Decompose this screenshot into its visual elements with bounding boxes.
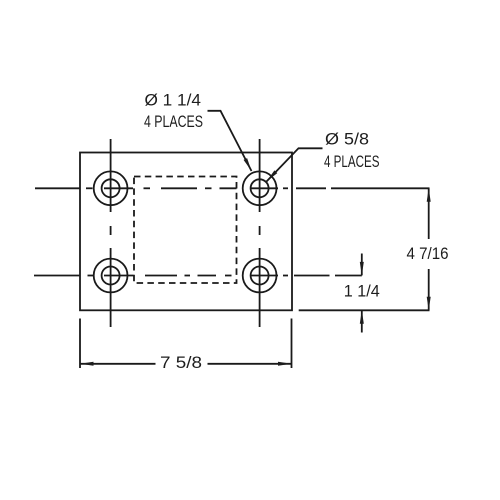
svg-text:Ø 1 1/4: Ø 1 1/4 — [145, 91, 202, 110]
arrowhead 7 5/8 left — [80, 362, 94, 366]
extension line bottom for 4 7/16 — [299, 309, 430, 311]
arrowhead 7 5/8 right — [278, 362, 292, 366]
hole bottom-right outer circle — [243, 259, 277, 293]
arrowhead leader 1 1/4 — [244, 158, 252, 171]
vertical centerline right column — [259, 139, 261, 327]
dimension line 7 5/8 right segment — [208, 363, 292, 365]
extension line top for 4 7/16 — [331, 187, 430, 189]
hole top-left inner circle — [102, 179, 120, 197]
leader line for hole diameter 5/8 — [267, 148, 323, 181]
arrowhead 4 7/16 bottom — [427, 297, 431, 311]
hole top-right outer circle — [243, 171, 277, 205]
svg-text:7 5/8: 7 5/8 — [160, 353, 202, 372]
hole bottom-right inner circle — [251, 267, 269, 285]
extension line right for 7 5/8 — [291, 319, 293, 369]
dimension line 4 7/16 bottom segment — [428, 269, 430, 310]
horizontal centerline upper row — [35, 187, 326, 189]
leader line for hole diameter 1 1/4 — [208, 111, 252, 171]
extension line left for 7 5/8 — [79, 319, 81, 369]
arrowhead 1 1/4 lower (points up) — [360, 310, 364, 324]
arrowhead 4 7/16 top — [427, 188, 431, 202]
hole bottom-left outer circle — [94, 259, 128, 293]
dimension line 4 7/16 top segment — [428, 188, 430, 239]
arrowhead leader 5/8 — [267, 170, 278, 181]
dimension line 1 1/4 lower arrow stem — [361, 310, 363, 332]
svg-text:4 7/16: 4 7/16 — [407, 244, 449, 263]
hole bottom-left inner circle — [102, 267, 120, 285]
svg-text:Ø 5/8: Ø 5/8 — [325, 130, 369, 149]
svg-text:4 PLACES: 4 PLACES — [144, 112, 203, 131]
dimension line 1 1/4 upper arrow stem — [361, 254, 363, 276]
svg-text:1 1/4: 1 1/4 — [344, 282, 380, 301]
svg-text:4 PLACES: 4 PLACES — [324, 152, 380, 171]
hole top-left outer circle — [94, 171, 128, 205]
hole top-right inner circle — [251, 179, 269, 197]
arrowhead 1 1/4 upper (points down) — [360, 262, 364, 276]
vertical centerline left column — [110, 139, 112, 327]
dimension line 7 5/8 left segment — [80, 363, 156, 365]
hidden (dashed) inner rectangle — [134, 177, 237, 284]
plate outline — [80, 153, 292, 311]
horizontal centerline lower row — [34, 275, 362, 277]
